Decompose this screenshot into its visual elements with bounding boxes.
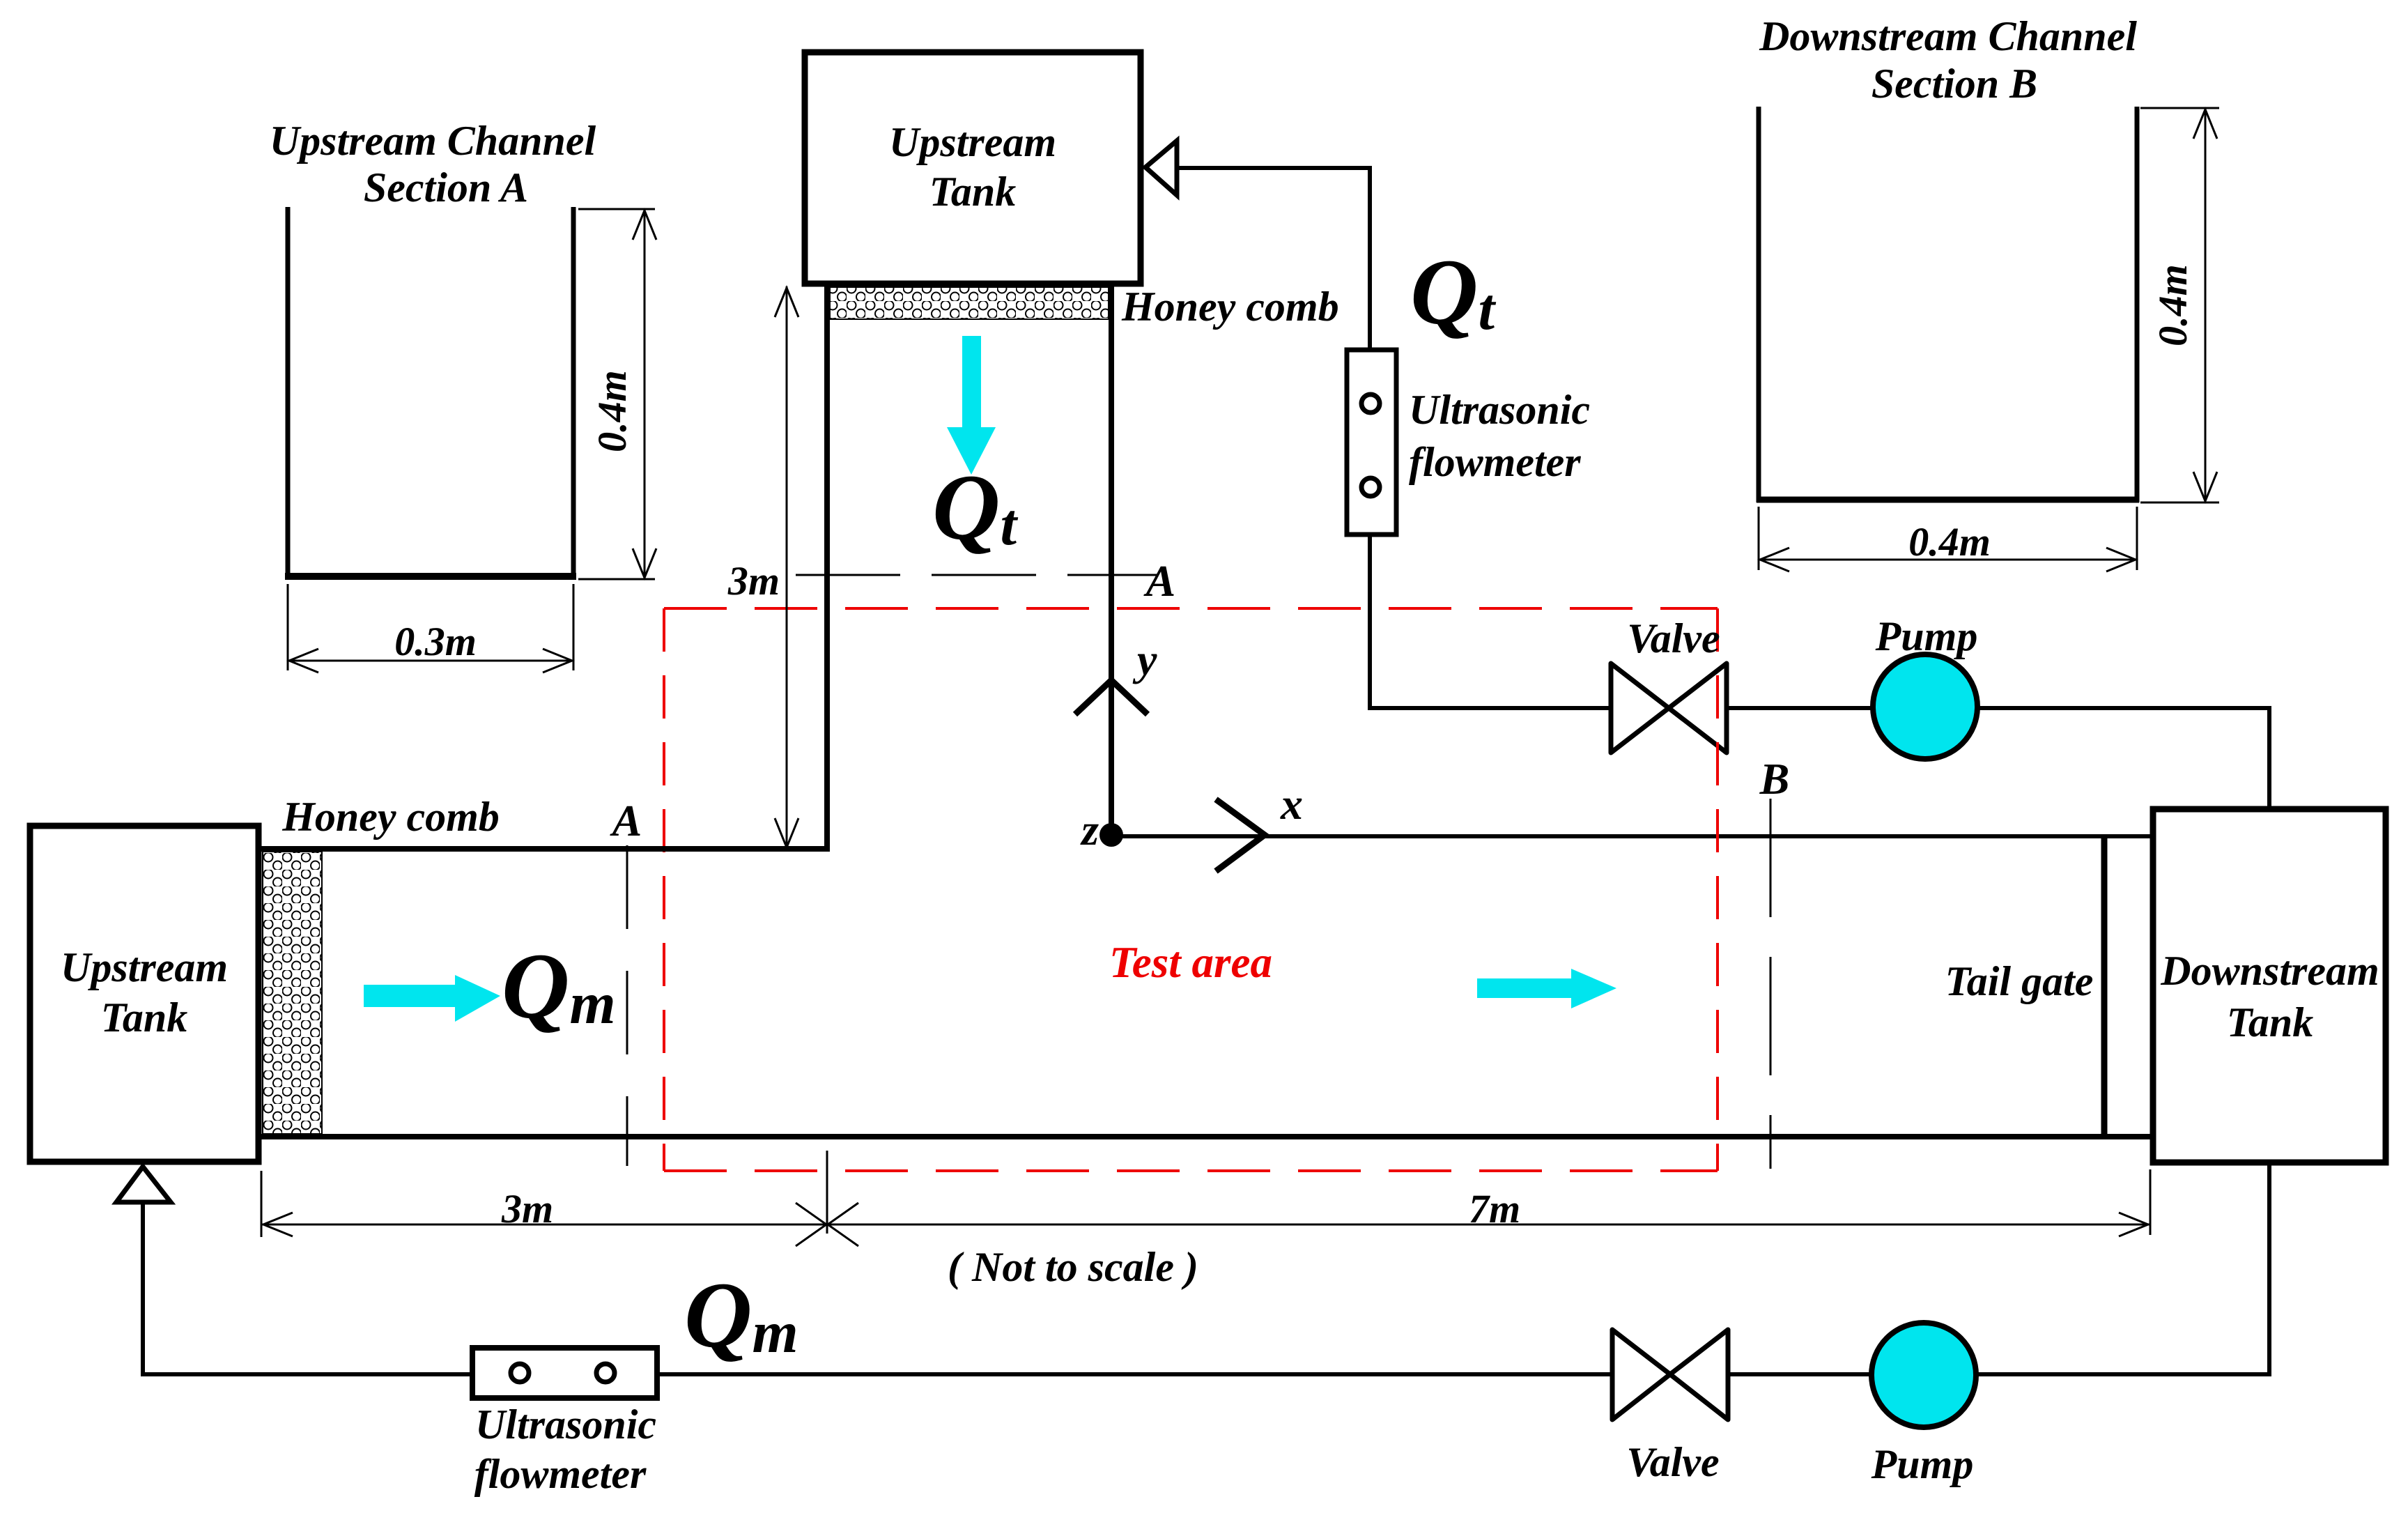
honeycomb right of upstream tank (left) xyxy=(263,852,322,1134)
upstream tank (left) xyxy=(30,826,258,1162)
red dashed test-area edge over valve xyxy=(1716,608,1719,1171)
0.4m dimension right xyxy=(2140,108,2219,502)
svg-text:Tank: Tank xyxy=(101,994,188,1040)
vertical channel left wall xyxy=(824,286,830,852)
svg-text:Tail gate: Tail gate xyxy=(1945,958,2094,1004)
svg-text:Honey comb: Honey comb xyxy=(281,794,500,840)
svg-text:Pump: Pump xyxy=(1875,613,1978,659)
svg-text:Upstream Channel: Upstream Channel xyxy=(270,118,596,164)
svg-text:B: B xyxy=(1759,754,1790,804)
pipe: top tank to flowmeter xyxy=(1177,168,1370,350)
svg-text:Pump: Pump xyxy=(1871,1441,1974,1487)
svg-text:Test area: Test area xyxy=(1109,938,1272,987)
section line B-B vertical xyxy=(1770,799,1772,1169)
section line A-A horizontal (vertical channel) xyxy=(796,574,1157,576)
vertical channel right wall xyxy=(1109,286,1114,836)
svg-text:z: z xyxy=(1080,805,1099,854)
valve (top) xyxy=(1611,663,1727,753)
svg-text:( Not to scale ): ( Not to scale ) xyxy=(948,1244,1198,1290)
upstream tank (top) xyxy=(805,52,1141,284)
test area red dashed rectangle xyxy=(664,608,1718,1171)
svg-text:Section B: Section B xyxy=(1871,61,2037,107)
valve (bottom) xyxy=(1612,1330,1728,1420)
downstream tank xyxy=(2153,809,2386,1162)
svg-text:Downstream: Downstream xyxy=(2160,948,2379,994)
svg-text:Valve: Valve xyxy=(1626,1439,1719,1485)
svg-text:Tank: Tank xyxy=(2227,999,2314,1045)
ultrasonic flowmeter (bottom) xyxy=(472,1348,657,1398)
pipe: flowmeter down and right to downstream tank top xyxy=(1370,535,2269,809)
0.4m dimension bottom xyxy=(1759,507,2137,571)
svg-text:Upstream: Upstream xyxy=(61,944,228,990)
svg-text:flowmeter: flowmeter xyxy=(474,1451,647,1497)
svg-text:Downstream Channel: Downstream Channel xyxy=(1759,13,2137,59)
section line A-A vertical (main channel) xyxy=(626,845,628,1166)
cyan arrow right (test area) xyxy=(1477,969,1616,1008)
svg-text:A: A xyxy=(1143,556,1176,606)
y axis arrowhead xyxy=(1075,680,1148,714)
coordinate origin z xyxy=(1099,823,1123,847)
inlet triangle left tank xyxy=(116,1167,171,1202)
svg-text:0.4m: 0.4m xyxy=(2150,264,2195,346)
svg-text:7m: 7m xyxy=(1469,1186,1520,1231)
svg-text:x: x xyxy=(1280,779,1303,829)
dimension 3m vertical (tank to channel) xyxy=(775,286,798,849)
0.4m dimension right xyxy=(578,209,656,579)
svg-text:0.4m: 0.4m xyxy=(589,370,635,452)
Section B detail (top right) xyxy=(1757,13,2219,571)
svg-text:3m: 3m xyxy=(727,558,780,604)
svg-text:Tank: Tank xyxy=(929,169,1017,215)
0.3m dimension bottom xyxy=(288,584,573,673)
svg-text:Honey comb: Honey comb xyxy=(1121,284,1339,330)
svg-text:Ultrasonic: Ultrasonic xyxy=(475,1401,656,1447)
pipe: left tank bottom loop xyxy=(143,1162,2269,1374)
svg-text:A: A xyxy=(610,796,642,845)
svg-text:0.4m: 0.4m xyxy=(1908,519,1991,565)
svg-text:Section A: Section A xyxy=(364,164,528,210)
cyan arrow down (vertical channel) xyxy=(947,336,996,475)
svg-text:Valve: Valve xyxy=(1627,615,1720,661)
tail gate xyxy=(2101,836,2108,1137)
pump (top) xyxy=(1873,654,1977,759)
svg-text:0.3m: 0.3m xyxy=(394,619,477,664)
svg-text:Upstream: Upstream xyxy=(889,119,1056,165)
inlet triangle top tank xyxy=(1145,141,1177,195)
svg-text:3m: 3m xyxy=(501,1186,553,1231)
svg-text:flowmeter: flowmeter xyxy=(1409,439,1581,485)
bottom dimension 3m / 7m xyxy=(261,1151,2150,1246)
svg-text:Ultrasonic: Ultrasonic xyxy=(1409,387,1590,433)
cyan arrow right (left channel) xyxy=(364,975,500,1022)
main channel top wall (right segment, x axis) xyxy=(1111,834,2153,838)
Section A detail (top left) xyxy=(270,118,656,673)
ultrasonic flowmeter (vertical) xyxy=(1347,350,1396,535)
honeycomb under upstream tank (top) xyxy=(830,287,1109,319)
pump (bottom) xyxy=(1871,1323,1976,1427)
main channel bottom wall xyxy=(259,1134,2153,1139)
x axis arrowhead xyxy=(1216,799,1265,871)
main channel top wall (left segment) xyxy=(259,846,830,852)
